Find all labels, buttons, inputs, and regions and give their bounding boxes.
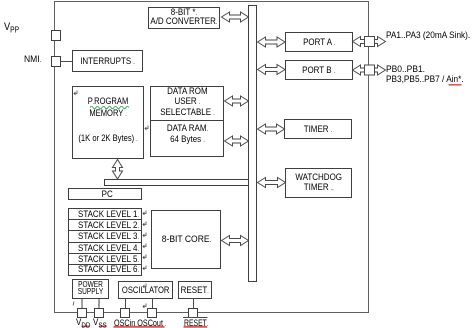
red underline under DD — [82, 326, 90, 328]
return mark inside program memory box — [74, 91, 77, 96]
return mark left of data ram box — [145, 126, 148, 131]
watchdog timer block — [285, 168, 352, 198]
label RESET pin — [184, 318, 217, 328]
arrow bus to port A — [258, 37, 286, 47]
label VDD — [76, 317, 93, 328]
label VPP — [4, 21, 22, 35]
pin VDD — [77, 308, 87, 318]
arrow bus to watchdog — [258, 178, 286, 188]
reset block — [178, 281, 212, 299]
arrow data ram to bus — [225, 136, 249, 146]
red underline under RESET label — [184, 326, 208, 328]
arrow program memory to bar (vertical) — [113, 160, 123, 180]
red underline under OSCin OSCout — [114, 326, 165, 328]
data rom block — [150, 86, 224, 121]
pin VSS — [94, 308, 104, 318]
label VSS — [93, 317, 109, 328]
8-bit core block — [151, 210, 221, 269]
overline on RESET pin label — [183, 317, 208, 319]
pin VPP — [51, 30, 61, 41]
return mark inside oscillator box — [143, 284, 146, 289]
wire power supply to VDD pin — [81, 299, 83, 308]
stack level 4 — [68, 242, 142, 254]
PC register box — [68, 188, 142, 200]
stack level 5 — [68, 253, 142, 265]
label NMI — [24, 54, 43, 65]
green squiggle under ROGRAM — [90, 106, 129, 109]
label PB0..PB1 — [386, 64, 430, 75]
arrow A/D to bus — [222, 12, 249, 22]
return mark near OSCout wire — [143, 304, 146, 309]
label PB3..PB7/Ain — [386, 74, 474, 85]
stack level 1 — [68, 208, 142, 220]
A/D converter block — [148, 7, 220, 29]
return marks right of stack levels — [73, 91, 148, 309]
interrupts block — [72, 50, 143, 72]
arrow bus to port B — [258, 65, 286, 75]
tick near VSS wire — [99, 302, 100, 306]
pin RESET — [188, 308, 198, 318]
wire power supply to VSS pin — [98, 299, 100, 308]
program memory block — [72, 86, 144, 159]
stack level 6 — [68, 264, 142, 276]
timer block — [284, 119, 352, 139]
pin square PB — [365, 65, 375, 75]
oscillator block — [118, 281, 173, 299]
arrow core to bus — [222, 236, 249, 246]
red underline under Ain — [449, 84, 462, 86]
pin OSCout — [147, 308, 157, 318]
data ram block — [150, 120, 224, 157]
stack level 3 — [68, 230, 142, 242]
arrow pin to PA label (right head) — [375, 37, 386, 47]
arrow data rom to bus — [225, 96, 249, 106]
arrow port A to pin (left head) — [353, 37, 365, 47]
arrow bus to timer — [258, 124, 285, 134]
wire reset box to reset pin — [193, 299, 195, 308]
bus bar vertical — [248, 5, 257, 282]
chip outline — [54, 1, 369, 313]
wire oscillator to OSCin pin — [125, 299, 127, 308]
pin square PA — [365, 37, 375, 47]
red underline under SS — [99, 326, 107, 328]
port A block — [285, 32, 353, 52]
label PA1..PA3 — [386, 30, 474, 41]
power supply block — [72, 279, 109, 299]
port B block — [285, 60, 353, 80]
tick near VDD wire — [73, 302, 74, 306]
arrow port B to pin (left head) — [353, 65, 365, 75]
horizontal connector bar — [104, 179, 249, 186]
stack level 2 — [68, 219, 142, 231]
label OSCin OSCout — [114, 318, 183, 328]
pin OSCin — [120, 308, 130, 318]
arrow pin to PB label (right head) — [375, 65, 386, 75]
pin NMI — [51, 56, 61, 67]
wire oscillator to OSCout pin — [152, 299, 154, 308]
wire NMI to interrupts — [61, 61, 72, 63]
